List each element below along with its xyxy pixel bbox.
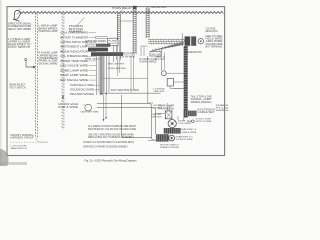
distributor xyxy=(168,120,176,128)
wire: tail feed xyxy=(162,48,165,71)
label: panel lamps xyxy=(108,63,126,71)
loom: engine harness xyxy=(184,111,197,117)
caption xyxy=(85,158,138,162)
label: body feed wire xyxy=(111,89,139,92)
label: direction signal flasher xyxy=(8,22,32,31)
wire: body feed xyxy=(99,92,161,94)
label: stop light switch xyxy=(196,118,213,123)
label: instrument panel wire list xyxy=(60,31,96,82)
label: dash units xyxy=(81,110,100,113)
label: lower wire rows xyxy=(70,84,99,96)
wire: coil primary xyxy=(155,103,169,113)
label: below block xyxy=(85,57,101,60)
wire: fuse leads xyxy=(95,37,108,39)
wire: rear harness run A xyxy=(97,103,156,140)
wire: relay branch xyxy=(120,20,133,22)
loom: headlamp drop xyxy=(146,8,149,38)
label: spark plugs xyxy=(216,104,230,112)
label: regulator base xyxy=(186,51,202,54)
wire: J2 feeds xyxy=(141,46,148,56)
label: rear wires mid xyxy=(152,113,163,119)
parking lamp P1 xyxy=(161,71,183,76)
label: horn wire xyxy=(69,18,85,34)
label: note mid 2 xyxy=(88,133,134,139)
starter motor xyxy=(156,134,175,141)
label: note mid 3 xyxy=(83,141,135,148)
ignition coil xyxy=(165,111,172,119)
label: tail feed xyxy=(155,56,166,62)
wire: starter feed xyxy=(148,128,172,141)
label: regulator title xyxy=(206,28,218,34)
label: headlamp junction xyxy=(148,6,167,12)
label: starter xyxy=(160,135,193,149)
loom: main rear harness xyxy=(184,46,188,118)
generator G xyxy=(198,39,203,44)
label: junction block B wires xyxy=(39,52,59,66)
label: horn relay xyxy=(112,7,133,13)
stop light switch xyxy=(188,120,195,123)
label: high tension xyxy=(178,110,215,126)
label: rear harness xyxy=(158,105,175,111)
loom: main harness drop xyxy=(133,6,137,54)
wire: ground strap xyxy=(121,95,152,138)
junction block J2 xyxy=(150,52,161,56)
wire: bottom-left lead xyxy=(10,141,48,143)
battery B1 xyxy=(164,128,181,134)
connector block: bulkhead main xyxy=(88,44,123,56)
wire: cowl harness (dashed) xyxy=(62,13,64,129)
wire: relay drop tails xyxy=(118,40,120,76)
label: generator wires xyxy=(206,36,224,49)
label: tail lamp wires xyxy=(191,95,213,103)
label: battery cables xyxy=(182,128,198,134)
wire: top harness loom xyxy=(17,11,223,15)
label: coil left xyxy=(153,105,163,110)
scan grain overlay xyxy=(7,7,225,156)
light switch S3 xyxy=(167,78,183,88)
dimmer switch S2 xyxy=(25,59,37,69)
label: head lamp wires xyxy=(8,38,34,49)
gauge: fuel gauge xyxy=(83,104,92,111)
wire: left door harness (dashed) xyxy=(36,13,47,142)
label: cluster feed xyxy=(120,53,136,59)
label: dimmer switch xyxy=(10,84,27,90)
label: junction block A xyxy=(39,25,58,33)
connector block: bulkhead upper xyxy=(108,38,119,46)
label: bottom-left title xyxy=(11,135,34,140)
wire bundle: to regulator xyxy=(148,39,185,45)
svg-text:Fig. 11—1951 Plymouth Car Wiri: Fig. 11—1951 Plymouth Car Wiring Diagram xyxy=(85,158,138,162)
wire: J2 drop xyxy=(148,56,153,103)
wire: heater feed xyxy=(100,77,148,79)
label: cluster rows xyxy=(85,40,111,46)
wire: distributor leads xyxy=(178,116,184,121)
label: fuel gauge xyxy=(58,103,79,109)
label: license lamp xyxy=(154,88,166,93)
label: bottom-left sub xyxy=(11,145,28,150)
horn H1 xyxy=(13,10,21,22)
loom: relay drop xyxy=(117,14,120,41)
label: note mid-left xyxy=(88,125,137,131)
wire bundle: diagonal to loom xyxy=(151,42,184,53)
label: junction J2 wires xyxy=(140,58,158,64)
wire bundle: instrument cluster xyxy=(97,40,134,122)
voltage regulator VR xyxy=(182,33,196,46)
wire: rear harness run B xyxy=(97,107,156,134)
